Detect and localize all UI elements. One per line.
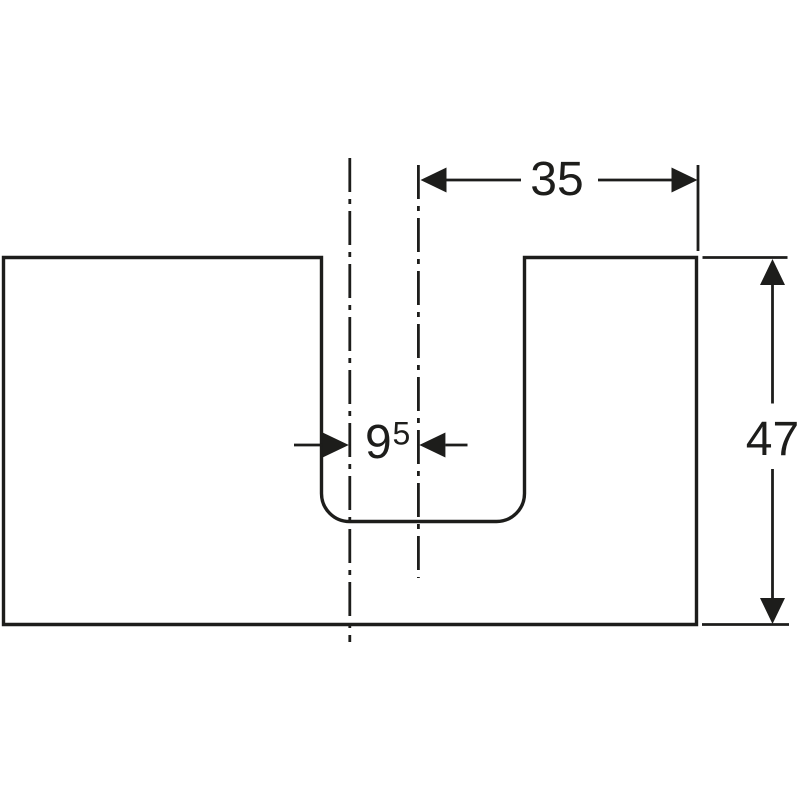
extension line bottom of dimension 47: [702, 623, 789, 626]
arrowhead 35 left: [421, 168, 447, 193]
dimension line 47 lower segment: [771, 469, 774, 599]
dimension 9.5 left tail line: [294, 444, 323, 447]
dimension line 35 left segment: [446, 179, 521, 182]
dimension 9.5 right tail line: [445, 444, 467, 447]
svg-text:47: 47: [746, 413, 799, 466]
arrowhead 47 bottom: [760, 598, 785, 624]
centerline A (cutout axis, dash-dot): [348, 158, 351, 642]
arrowhead 47 top: [760, 259, 785, 285]
svg-text:35: 35: [530, 153, 583, 206]
extension line top of dimension 47: [703, 256, 788, 259]
extension line right of dimension 35: [697, 165, 700, 251]
centerline B (tap hole axis, dash-dot): [417, 165, 420, 578]
dimension line 35 right segment: [598, 179, 672, 182]
dimension line 47 upper segment: [771, 285, 774, 404]
panel outline with U-shaped cutout: [4, 258, 697, 625]
svg-text:9: 9: [365, 416, 392, 469]
arrowhead 35 right: [672, 168, 698, 193]
arrowhead 9.5 left (pointing right at centerline A): [323, 433, 349, 458]
svg-text:5: 5: [393, 416, 411, 452]
arrowhead 9.5 right (pointing left at centerline B): [419, 433, 445, 458]
